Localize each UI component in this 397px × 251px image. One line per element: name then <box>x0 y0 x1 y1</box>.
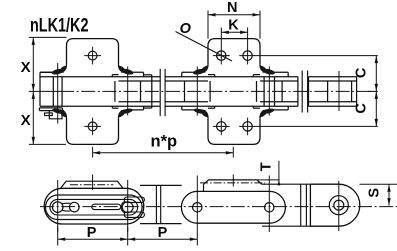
T arrow up <box>278 180 281 186</box>
inner bar top line <box>309 80 357 82</box>
plan left link fold centerline <box>70 184 113 186</box>
T extension vertical <box>278 161 280 185</box>
roller right edge <box>61 77 63 107</box>
inner bar bottom line <box>119 101 161 103</box>
outer plate edge bottom (right) <box>262 225 310 227</box>
K1 right flange on link <box>127 71 144 73</box>
K2 right foot curl <box>260 66 267 73</box>
washer stub right of K2 left wall <box>208 74 215 76</box>
roller right edge <box>274 77 276 107</box>
X dimension bottom extension line <box>29 143 66 145</box>
N arrow left <box>208 13 216 16</box>
X dim arrow up top <box>32 37 35 45</box>
K2 left flange on link <box>182 71 200 73</box>
C extension bottom <box>256 125 378 127</box>
inner bar bottom line <box>309 101 357 103</box>
K2 right flange bottom <box>268 109 288 111</box>
C extension top <box>256 55 378 57</box>
K2 lower hole right <box>243 122 252 131</box>
outer plate edge top (right) <box>262 183 310 185</box>
P dimension line <box>58 238 198 240</box>
plan right link plate <box>310 184 359 226</box>
plate end after break 2 <box>308 77 310 107</box>
plan right pin outer circle <box>329 196 348 215</box>
inner plate end left <box>114 81 116 102</box>
plan middle pin 3 circle <box>193 203 202 212</box>
K1 left foot curl <box>59 66 66 73</box>
chain left end edge <box>39 72 41 106</box>
chain right end edge <box>356 77 358 107</box>
plate end before break 1 <box>151 75 153 108</box>
plan middle flange bump <box>204 180 263 192</box>
svg-text:S: S <box>367 188 383 198</box>
inner plate end right <box>209 81 211 102</box>
plan pin 2 slot left arc <box>121 201 125 213</box>
svg-text:N: N <box>227 0 237 16</box>
svg-text:T: T <box>259 162 275 171</box>
plan keyhole neck top <box>62 202 70 204</box>
inner plate end right p5 <box>351 81 353 102</box>
plate end before break 2 <box>297 77 299 107</box>
N arrow right <box>253 13 261 16</box>
inner bar top line <box>119 80 161 82</box>
plan pin4 centerline <box>268 176 270 233</box>
plan middle slot <box>92 204 121 209</box>
N extension right <box>259 11 261 39</box>
K2 upper hole left <box>217 51 226 60</box>
plan pin2 centerline <box>127 180 129 232</box>
step top before break 1 <box>144 74 152 76</box>
plan middle link plate <box>181 191 285 223</box>
roller left edge <box>263 77 265 107</box>
plan pin5 centerline <box>338 181 340 231</box>
plate bottom edge <box>165 105 298 107</box>
attachment K1 lower plate right foot bend <box>119 110 127 119</box>
plate top edge <box>40 76 160 78</box>
n*p arrow right <box>226 151 234 154</box>
K1 lower hole <box>88 122 97 131</box>
attachment K2 lower plate right foot bend <box>260 110 268 119</box>
K extension left <box>220 28 222 48</box>
K1 right flange bottom <box>127 109 144 111</box>
P extension line 2 <box>127 227 129 246</box>
inner bar bottom line <box>165 101 208 103</box>
K dimension line <box>221 31 247 33</box>
washer stub left of K2 right wall bottom <box>253 107 260 109</box>
washer stub left of K1 right wall bottom <box>112 107 118 109</box>
washer stub left of K2 right wall <box>253 74 260 76</box>
washer stub right of K2 left wall bottom <box>208 107 215 109</box>
K1 right foot curl bottom <box>119 110 126 117</box>
K2 left foot curl <box>201 66 208 73</box>
attachment K1 upper plate left foot bend <box>40 64 67 72</box>
plan pin 2 slot bottom finger <box>124 212 144 217</box>
K2 upper hole right <box>243 51 252 60</box>
n*p dimension line <box>93 152 234 154</box>
break line 1a <box>159 69 161 116</box>
plan pin 2 slot top finger <box>124 197 144 202</box>
S arrow down <box>387 198 390 206</box>
N dimension line <box>208 14 260 16</box>
pin 1 lower head <box>49 111 62 119</box>
svg-text:X: X <box>21 59 31 76</box>
pin 5 centerline <box>338 71 340 111</box>
plan break 1a <box>155 185 157 223</box>
inner plate end right <box>140 81 142 102</box>
S arrow up <box>387 184 390 192</box>
T flange-edge extension <box>257 179 280 181</box>
step bottom before break 1 <box>144 107 152 109</box>
plan left link attachment plate outline <box>44 188 144 224</box>
break line 2a <box>301 71 303 113</box>
inner plate end left p5 <box>327 81 329 102</box>
P extension line 1 <box>57 227 59 246</box>
plan left link center tick <box>92 175 94 191</box>
pin 4 centerline <box>268 67 270 116</box>
attachment K2 lower plate left foot bend <box>200 110 208 119</box>
plan left link outer plate <box>46 195 143 220</box>
attachment K2 upper plate right foot bend <box>260 64 268 72</box>
P arrow mid left <box>120 238 128 241</box>
washer stub left of K1 right wall <box>112 74 118 76</box>
svg-text:nLK1/K2: nLK1/K2 <box>30 15 89 36</box>
break line 1b <box>164 69 166 116</box>
plate bottom edge <box>40 105 160 107</box>
attachment K2 upper plate <box>208 39 260 65</box>
svg-text:C: C <box>353 67 369 78</box>
plate top edge <box>309 76 357 78</box>
outer plate edge bottom (break1) <box>140 223 182 225</box>
pin 1 cotter <box>45 113 53 116</box>
pin 3 centerline <box>196 67 198 116</box>
inner plate end left <box>184 81 186 102</box>
n*p extension right <box>232 147 234 158</box>
plan break 2a <box>300 184 302 226</box>
P extension line 3 <box>196 232 198 246</box>
inner bar top line <box>260 80 298 82</box>
C arrow up mid <box>375 91 378 99</box>
plate top edge <box>165 76 298 78</box>
K extension right <box>247 28 249 48</box>
P arrow left <box>58 238 65 241</box>
X dim arrow down to centerline <box>32 84 35 92</box>
X dim arrow down bottom <box>32 137 35 145</box>
n*p arrow left <box>93 151 101 154</box>
plan left link inner outline <box>50 199 138 215</box>
plan pin3 centerline <box>196 176 198 233</box>
K1 right foot curl <box>119 66 126 73</box>
C dimension line <box>375 56 377 127</box>
K arrow right <box>240 31 248 34</box>
break line 2b <box>307 71 309 113</box>
K1 left flange on link <box>40 71 59 73</box>
plate bottom edge <box>309 105 357 107</box>
X dimension mid extension line (chain centerline level) <box>29 90 60 92</box>
plan middle fold centerline <box>200 182 265 184</box>
top view chain centerline <box>60 90 375 92</box>
C arrow down mid <box>375 84 378 92</box>
plan middle pin 4 circle <box>265 203 274 212</box>
plan break 1b <box>160 185 162 223</box>
C extension centerline right <box>368 90 378 92</box>
plan left link flange bump <box>61 181 123 188</box>
N extension left <box>207 11 209 39</box>
C arrow down <box>375 119 378 127</box>
attachment K1 upper plate right foot bend <box>119 64 127 72</box>
K1 upper hole O <box>88 51 97 60</box>
K arrow left <box>221 31 229 34</box>
plan pin 2 circle <box>122 202 133 213</box>
S dimension line <box>388 184 390 205</box>
K2 left flange bottom <box>182 109 200 111</box>
svg-text:P: P <box>158 225 168 241</box>
attachment K2 upper plate left foot bend <box>200 64 208 72</box>
S top extension <box>360 183 397 185</box>
P arrow right <box>190 238 198 241</box>
svg-text:n*p: n*p <box>151 133 178 151</box>
X dimension top extension line <box>29 36 67 38</box>
plan view centerline <box>40 206 397 208</box>
plan break 2b <box>305 184 307 226</box>
plan right pin inner circle <box>334 200 344 210</box>
plan keyhole bulb <box>70 202 80 212</box>
inner plate end left <box>256 81 258 102</box>
attachment K1 lower plate <box>67 118 119 144</box>
K2 right flange on link <box>268 71 288 73</box>
plan keyhole neck bottom <box>62 210 70 212</box>
plan middle center tick <box>232 175 234 187</box>
K2 lower hole left <box>217 122 226 131</box>
plan keyhole pin circle <box>52 202 63 213</box>
pin 2 centerline <box>127 67 129 116</box>
attachment K1 lower plate left foot bend <box>59 110 67 119</box>
pin 1 centerline <box>57 63 59 124</box>
K1 left flange bottom rect <box>39 107 62 109</box>
X dimension line vertical <box>32 37 34 144</box>
X dim arrow up from centerline <box>32 91 35 99</box>
K1 left foot curl bottom <box>59 110 66 117</box>
attachment K1 upper plate <box>67 39 119 65</box>
roller left edge <box>52 77 54 107</box>
svg-text:K: K <box>228 18 239 34</box>
K2 right foot curl bottom <box>260 110 267 117</box>
outer plate edge top (break1) <box>140 184 182 186</box>
svg-text:C: C <box>353 103 369 114</box>
K2 left foot curl bottom <box>201 110 208 117</box>
inner plate end right <box>281 81 283 102</box>
O leader line <box>176 32 233 62</box>
inner bar bottom line <box>260 101 298 103</box>
svg-text:P: P <box>87 225 97 241</box>
P arrow mid right <box>128 238 136 241</box>
n*p extension left <box>92 147 94 158</box>
plan pin1 centerline <box>57 180 59 232</box>
inner bar top line <box>165 80 208 82</box>
attachment K2 lower plate <box>208 118 260 144</box>
svg-text:X: X <box>21 112 31 129</box>
C arrow up <box>375 56 378 64</box>
